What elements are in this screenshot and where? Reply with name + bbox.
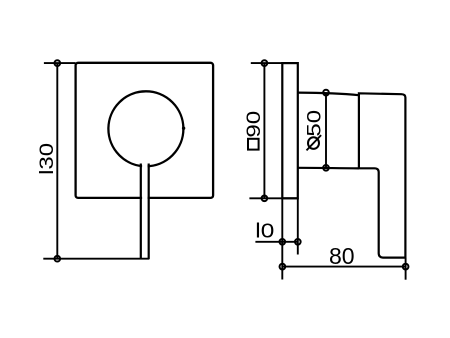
dim sq90: bottom extension line bbox=[249, 197, 297, 199]
extension line: lever front down bbox=[405, 258, 407, 280]
dim 130: top marker bbox=[54, 60, 60, 66]
dim sq90: top extension line bbox=[251, 62, 282, 64]
svg-text:l0: l0 bbox=[255, 220, 274, 243]
svg-text:80: 80 bbox=[329, 243, 355, 269]
dim 80: right marker bbox=[403, 264, 409, 270]
node dot on circle right edge bbox=[182, 127, 185, 130]
side view: wall plate bbox=[282, 63, 298, 198]
dim sq90: square symbol bbox=[248, 139, 259, 150]
dim dia50: diameter symbol slash bbox=[307, 135, 322, 150]
dim 80: left marker bbox=[280, 264, 286, 270]
dim dia50: dimension line bbox=[325, 93, 327, 168]
front view: handle boss circle bbox=[108, 91, 183, 166]
front view: lever stem left edge bbox=[140, 164, 142, 260]
dim 10: dimension line bbox=[255, 241, 297, 243]
dim sq90: top marker bbox=[262, 60, 268, 66]
side view: cartridge sleeve bottom edge bbox=[298, 167, 359, 170]
dim 130: dimension line bbox=[56, 63, 58, 259]
dim sq90: bottom marker bbox=[262, 195, 268, 201]
dim 80: dimension line bbox=[282, 266, 405, 268]
svg-text:50: 50 bbox=[303, 110, 325, 137]
dim 130: bottom extension line bbox=[43, 258, 149, 260]
side view: handle body and lever outline bbox=[359, 93, 406, 257]
svg-text:l30: l30 bbox=[35, 143, 57, 175]
dim dia50: bottom marker bbox=[323, 165, 329, 171]
svg-text:90: 90 bbox=[242, 111, 264, 138]
dim dia50: diameter symbol ellipse bbox=[308, 137, 319, 149]
dim sq90: dimension line bbox=[263, 63, 265, 198]
dim 10: right marker bbox=[295, 239, 301, 245]
front view: lever stem right edge bbox=[148, 164, 150, 260]
dim 130: top extension line bbox=[44, 62, 76, 64]
front view: square escutcheon plate bbox=[76, 63, 214, 198]
dim dia50: top marker bbox=[323, 90, 329, 96]
extension line: plate front down bbox=[297, 198, 299, 254]
dim 130: bottom marker bbox=[54, 256, 60, 262]
dim 10: left marker bbox=[279, 239, 285, 245]
side view: cartridge sleeve top edge bbox=[298, 93, 359, 96]
white gap in circle bottom for lever stem bbox=[142, 159, 147, 258]
extension line: wall plane down from plate back bbox=[281, 198, 283, 279]
